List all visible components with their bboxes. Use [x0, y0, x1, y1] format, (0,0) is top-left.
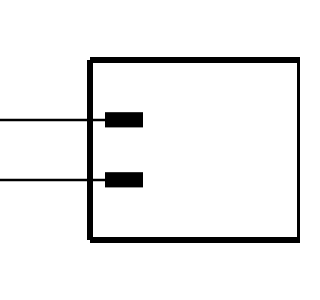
- wire to pin 1: [0, 119, 105, 121]
- connector J1 pin 1 pad: [105, 112, 143, 127]
- connector J1 body left edge: [87, 60, 93, 240]
- connector J1 body right edge: [297, 60, 303, 240]
- connector J1 pin 2 pad: [105, 172, 143, 187]
- wire to pin 2: [0, 179, 105, 181]
- connector J1 body bottom edge: [90, 237, 300, 243]
- connector J1 body top edge: [90, 57, 300, 63]
